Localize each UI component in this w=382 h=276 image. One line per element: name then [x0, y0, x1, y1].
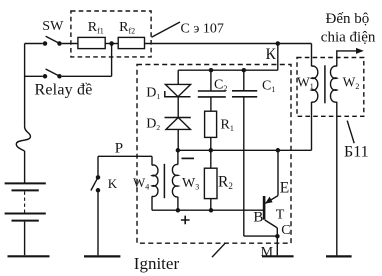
svg-text:К: К: [266, 46, 277, 63]
wire switch K to ground: [97, 192, 99, 255]
switch SW: [43, 36, 62, 46]
plus polarity mark: [181, 216, 190, 225]
ground bar M: [262, 255, 294, 257]
dashed box Igniter: [137, 65, 291, 244]
wire Rf1 to junction: [105, 43, 118, 45]
capacitor C2 plates: [198, 91, 226, 97]
svg-text:Rf2: Rf2: [119, 20, 135, 36]
wire D1 to D2: [177, 97, 179, 118]
wire SW to Rf1: [62, 43, 78, 45]
wire base bus: [152, 209, 263, 211]
ground bar W2: [326, 255, 352, 257]
svg-text:Б11: Б11: [344, 144, 369, 161]
battery plate short 1: [12, 189, 39, 191]
winding W3 coil: [172, 164, 177, 196]
wire R2 bottom lead: [210, 199, 212, 211]
svg-text:M: M: [261, 245, 274, 260]
svg-text:C2: C2: [214, 78, 227, 94]
winding W3 bottom lead: [177, 197, 179, 211]
resistor R2: [204, 168, 217, 198]
capacitor C2 top lead: [210, 70, 212, 91]
battery plate short 2: [12, 220, 39, 222]
wire C2 to R1: [210, 97, 212, 111]
wire left vertical battery: [24, 44, 26, 127]
battery plate long 1: [5, 182, 46, 184]
wire relay switch to junction riser: [62, 75, 112, 77]
svg-text:W2: W2: [343, 75, 360, 92]
battery dashed middle: [24, 192, 26, 213]
svg-text:Rf1: Rf1: [88, 20, 104, 36]
winding W1 coil: [312, 66, 318, 102]
ground bar battery: [8, 255, 50, 257]
svg-text:R1: R1: [221, 118, 234, 134]
winding W4 coil: [152, 165, 158, 197]
winding W1 top lead: [311, 44, 313, 67]
pointer line Igniter label: [212, 243, 225, 257]
wire junction down to relay branch: [111, 44, 113, 77]
svg-text:B: B: [253, 210, 263, 226]
wire igniter top bus: [178, 69, 278, 71]
core W1 W2: [324, 65, 326, 103]
wire C1 drop to M node: [244, 235, 278, 237]
minus polarity mark: [182, 157, 195, 159]
wire emitter vertical: [277, 150, 279, 195]
pointer line to label C e 107: [152, 22, 181, 37]
battery plate long 2: [5, 213, 46, 215]
svg-text:C: C: [281, 223, 290, 238]
wire C1 bottom long drop: [243, 97, 245, 236]
capacitor C1 top lead: [243, 70, 245, 91]
winding W1 bottom lead: [311, 102, 313, 150]
svg-text:D2: D2: [146, 117, 160, 133]
svg-text:P: P: [115, 140, 123, 156]
svg-text:W1: W1: [297, 75, 314, 92]
svg-text:Igniter: Igniter: [134, 254, 180, 273]
svg-text:W3: W3: [182, 176, 199, 192]
svg-text:SW: SW: [42, 19, 64, 34]
pointer line B11 label: [347, 121, 354, 144]
wire squiggle to battery: [24, 151, 26, 183]
wire riser K node to igniter bus: [277, 44, 279, 71]
diode D2 bar: [165, 117, 191, 119]
diode D2 triangle: [166, 118, 190, 130]
capacitor C1 plates: [232, 91, 257, 97]
node R1 R2: [209, 148, 214, 153]
transistor T emitter with arrow: [265, 196, 278, 204]
wire battery positive rail to SW: [25, 43, 43, 45]
transistor T collector: [265, 220, 278, 228]
transistor T base bar: [263, 196, 266, 220]
svg-text:K: K: [108, 176, 118, 191]
switch Relay de: [43, 69, 62, 79]
node W3 bottom: [176, 208, 181, 213]
core W3 W4: [163, 164, 165, 198]
wire collector down: [276, 228, 278, 255]
node emitter: [276, 148, 281, 153]
node W3 top: [176, 148, 181, 153]
fuse squiggle: [16, 127, 30, 152]
dashed box ignition coil W1 W2: [297, 58, 364, 117]
winding W3 top lead: [177, 150, 179, 164]
svg-text:W4: W4: [133, 175, 149, 192]
dashed box around Rf1 Rf2: [71, 11, 151, 57]
wire battery negative down: [24, 222, 26, 256]
winding W2 coil: [330, 66, 336, 102]
winding W4 top lead: [151, 156, 153, 165]
node C2 tap: [209, 68, 214, 73]
svg-text:T: T: [276, 207, 285, 222]
wire W2 bottom down: [336, 102, 338, 256]
wire relay branch left: [25, 75, 43, 77]
svg-text:Đến bộ: Đến bộ: [326, 11, 370, 27]
wire Rf2 to K node and W1: [145, 43, 312, 45]
svg-text:R2: R2: [218, 174, 233, 192]
svg-text:D1: D1: [146, 85, 160, 101]
diode D1 zener bar: [165, 91, 191, 97]
wire bus to D1: [177, 70, 179, 84]
switch K contacts: [91, 175, 100, 192]
winding W4 bottom lead: [151, 196, 153, 210]
svg-text:chia điện: chia điện: [321, 29, 376, 45]
wire P feed: [98, 155, 152, 157]
wire W2 top to distributor arrow: [337, 48, 364, 66]
resistor R1: [205, 111, 217, 137]
node R2 bottom: [209, 208, 214, 213]
resistor Rf1: [78, 37, 105, 48]
diode D1 triangle: [165, 84, 190, 96]
node K: [276, 41, 281, 46]
wire D2 down to node: [177, 129, 179, 150]
svg-text:C1: C1: [262, 79, 275, 95]
node junction Rf1/Rf2: [109, 41, 114, 46]
wire P to switch K: [97, 156, 99, 175]
wire emitter bus: [178, 149, 312, 151]
svg-text:Е: Е: [280, 180, 289, 197]
wire R1 to node: [210, 137, 212, 150]
ground bar switch K: [84, 255, 120, 257]
wire R2 top lead: [210, 150, 212, 168]
node M: [275, 234, 280, 239]
node C1 tap: [242, 68, 247, 73]
resistor Rf2: [118, 37, 144, 48]
svg-text:С э 107: С э 107: [181, 21, 224, 36]
svg-text:Relay đề: Relay đề: [35, 82, 93, 99]
